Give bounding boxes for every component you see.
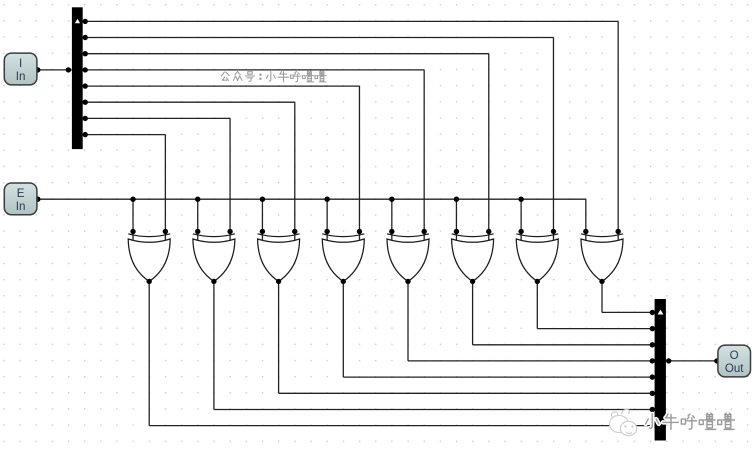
svg-text:In: In	[16, 200, 26, 213]
svg-text:O: O	[730, 349, 739, 362]
svg-text:In: In	[16, 70, 26, 83]
svg-text:I: I	[19, 57, 22, 70]
svg-text:E: E	[17, 187, 25, 200]
svg-text:Out: Out	[725, 362, 744, 375]
